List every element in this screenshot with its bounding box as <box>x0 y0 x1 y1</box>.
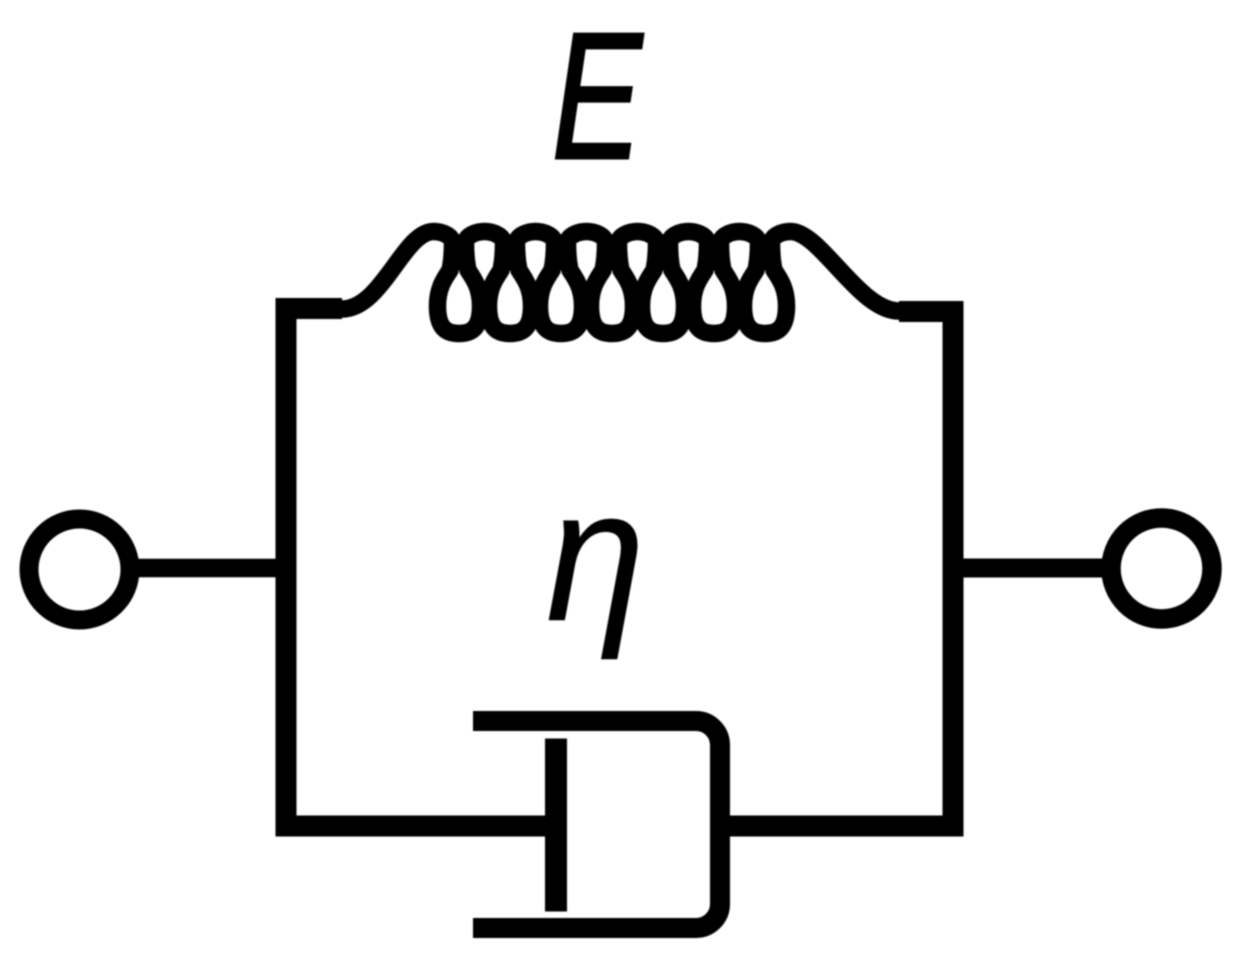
svg-text:η: η <box>546 450 645 660</box>
dashpot piston <box>545 739 567 912</box>
terminal wire left <box>133 559 296 578</box>
spring (coil) <box>342 232 899 334</box>
terminal wire right <box>943 559 1107 578</box>
terminal circle right <box>1111 518 1212 619</box>
terminal circle left <box>29 519 130 620</box>
wire right branch: top stub, right vertical, bottom-right wire <box>724 312 953 827</box>
wire left branch: top stub, left vertical, bottom-left wire <box>286 309 556 827</box>
svg-text:E: E <box>552 0 644 196</box>
dashpot cylinder <box>473 721 720 928</box>
